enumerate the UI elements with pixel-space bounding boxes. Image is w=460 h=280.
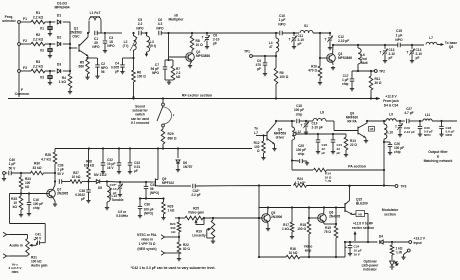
svg-text:L8: L8	[320, 111, 324, 115]
svg-text:MPF102: MPF102	[162, 181, 174, 185]
svg-text:kΩ: kΩ	[176, 75, 181, 79]
wire	[275, 52, 277, 56]
wire	[62, 181, 70, 183]
ground	[318, 78, 322, 85]
transistor Q1	[70, 27, 88, 57]
svg-text:33 kΩ: 33 kΩ	[32, 166, 41, 170]
resistor R23	[170, 218, 181, 234]
trimmer capacitor C8	[202, 32, 220, 46]
svg-text:Modulator: Modulator	[382, 208, 399, 212]
ground	[86, 192, 90, 203]
trimmer capacitor C37	[110, 182, 123, 195]
wire diode bus	[63, 22, 71, 72]
wire Q6 emitter	[324, 221, 336, 224]
diode D1	[57, 13, 61, 24]
inductor L6	[358, 45, 368, 65]
svg-text:S1: S1	[304, 24, 308, 28]
label: sound subcarrier switch note	[131, 105, 150, 125]
resistor R10	[308, 64, 322, 78]
svg-text:T: T	[202, 36, 204, 40]
transistor Q7	[47, 188, 69, 198]
ground	[177, 254, 181, 261]
svg-text:2N3905: 2N3905	[57, 192, 68, 196]
wire subcarrier rail	[55, 147, 252, 149]
transistor Q6	[318, 211, 341, 223]
resistor R35	[11, 196, 23, 210]
ground	[205, 41, 209, 49]
svg-text:*C42 1 to 3.3 pF can be used t: *C42 1 to 3.3 pF can be used to vary sub…	[131, 266, 216, 270]
svg-text:NPO: NPO	[446, 133, 453, 137]
svg-text:680: 680	[78, 65, 84, 69]
wire Q6 collector	[323, 208, 325, 215]
svg-text:From jack: From jack	[383, 99, 399, 103]
svg-text:50 V: 50 V	[57, 172, 64, 176]
transistor Q4	[256, 123, 286, 145]
svg-text:(NPO): (NPO)	[150, 191, 159, 195]
svg-text:Ω: Ω	[257, 149, 260, 153]
wire Q3 emitter	[331, 61, 335, 69]
svg-text:R3: R3	[36, 60, 40, 64]
svg-text:NTSC or PAL: NTSC or PAL	[137, 233, 157, 237]
wire	[308, 234, 310, 257]
svg-text:C36: C36	[144, 203, 150, 207]
wire driver collector	[276, 120, 307, 122]
svg-text:2-10 pF: 2-10 pF	[404, 130, 415, 134]
svg-text:pF: pF	[298, 42, 302, 46]
node audio in hot	[3, 232, 9, 236]
wire	[384, 185, 395, 187]
svg-text:T: T	[325, 38, 327, 42]
svg-text:pF: pF	[337, 151, 341, 155]
wire	[307, 184, 386, 186]
capacitor C25	[292, 144, 306, 163]
resistor R27	[70, 171, 82, 183]
svg-text:10 kΩ: 10 kΩ	[72, 175, 81, 179]
ground	[101, 165, 105, 174]
svg-text:2.2 pF: 2.2 pF	[191, 193, 200, 197]
capacitor C15	[395, 29, 403, 47]
capacitor C40	[5, 158, 16, 175]
svg-text:F3: F3	[23, 66, 27, 70]
capacitor C38	[75, 182, 91, 202]
svg-text:2.2 kΩ: 2.2 kΩ	[33, 15, 44, 19]
wire Q5 source	[158, 185, 191, 187]
resistor R12	[254, 141, 266, 153]
ferrite bead H5	[369, 127, 375, 132]
svg-text:4.7 kΩ: 4.7 kΩ	[41, 157, 51, 161]
svg-text:F2: F2	[23, 39, 27, 43]
node video in shield	[161, 251, 167, 255]
wire	[141, 32, 147, 34]
capacitor C16	[27, 194, 43, 211]
svg-text:NPO: NPO	[92, 45, 100, 49]
svg-text:(9 t): (9 t)	[150, 44, 156, 48]
wire	[353, 213, 357, 216]
wire	[40, 242, 46, 244]
resistor R9	[274, 56, 289, 84]
svg-text:R30: R30	[34, 162, 40, 166]
wire rail	[106, 32, 122, 34]
wire	[139, 189, 165, 200]
svg-text:Q8: Q8	[449, 45, 454, 49]
ground	[48, 52, 52, 58]
diode D4	[379, 235, 383, 245]
potentiometer R19	[192, 218, 214, 238]
svg-text:chip: chip	[296, 112, 303, 116]
wire	[123, 50, 135, 65]
wire Q9 base	[326, 121, 358, 131]
zener diode D6	[176, 149, 193, 170]
capacitor C6	[156, 18, 164, 35]
label: To L7	[254, 127, 258, 135]
ground	[331, 142, 335, 154]
ground	[418, 129, 422, 137]
ground	[68, 88, 72, 94]
transistor Q2	[186, 50, 211, 61]
label: video input	[137, 233, 157, 251]
svg-text:R1: R1	[36, 11, 40, 15]
wire	[88, 179, 90, 182]
svg-text:5.5 MHz: 5.5 MHz	[116, 214, 128, 218]
resistor R11	[369, 71, 382, 90]
capacitor C3	[103, 33, 115, 48]
label: Freq. selector	[2, 15, 16, 23]
svg-text:pF: pF	[113, 191, 117, 195]
capacitor C18	[294, 104, 304, 123]
svg-text:2.2 kΩ: 2.2 kΩ	[33, 37, 44, 41]
capacitor C41	[34, 233, 43, 245]
capacitor C36	[138, 199, 150, 209]
capacitor C30	[418, 121, 433, 137]
svg-text:kΩ: kΩ	[25, 185, 30, 189]
svg-text:1 kΩ: 1 kΩ	[59, 80, 67, 84]
wire	[409, 120, 423, 122]
switch J sound subcarrier	[157, 103, 175, 127]
svg-text:Input: Input	[414, 241, 423, 245]
svg-text:NPO: NPO	[278, 22, 286, 26]
wire F common bus	[18, 23, 20, 97]
svg-text:4.7 pF: 4.7 pF	[404, 111, 413, 115]
svg-text:driver: driver	[276, 135, 286, 139]
svg-text:T: T	[289, 38, 291, 42]
ground	[103, 43, 107, 53]
inductor L7	[426, 36, 437, 45]
capacitor C10	[278, 14, 286, 35]
wire	[400, 44, 424, 46]
label: 4.5 or 5.5 MHz	[116, 210, 128, 218]
ground	[120, 67, 124, 74]
ground	[85, 74, 89, 79]
wire	[396, 120, 405, 122]
resistor R24	[294, 177, 307, 187]
svg-text:pF: pF	[389, 56, 393, 60]
svg-text:16 V: 16 V	[354, 252, 361, 256]
inductor L8	[313, 111, 326, 122]
svg-text:4.7 kΩ*: 4.7 kΩ*	[295, 181, 307, 185]
diode D3	[57, 62, 61, 73]
transistor Q5 MPF102	[146, 149, 174, 187]
resistor R17	[282, 208, 294, 233]
test point TP1	[244, 50, 252, 58]
label: +12.8V from jack	[383, 95, 399, 108]
wire	[365, 214, 370, 244]
wire wiper	[35, 243, 37, 246]
wire	[391, 255, 393, 260]
resistor R18	[297, 208, 311, 235]
wire	[89, 181, 97, 183]
svg-text:+: +	[345, 246, 347, 250]
resistor R22	[177, 232, 190, 254]
label: LED power indicator	[362, 260, 380, 272]
label: Audio in	[9, 244, 23, 248]
svg-text:indicator: indicator	[363, 268, 377, 272]
potentiometer R31 audio gain	[26, 239, 37, 256]
wire	[20, 43, 31, 45]
svg-text:F1: F1	[23, 17, 27, 21]
svg-text:50 V: 50 V	[35, 237, 42, 241]
wire	[45, 21, 55, 23]
ground	[410, 54, 414, 63]
wire	[11, 172, 31, 174]
svg-text:2N4305: 2N4305	[329, 215, 340, 219]
ground	[266, 221, 270, 230]
svg-text:22 Ω: 22 Ω	[350, 143, 357, 147]
ground	[48, 30, 52, 36]
resistor R14	[314, 168, 332, 183]
svg-text:82 Ω: 82 Ω	[183, 247, 190, 251]
svg-text:16 V: 16 V	[107, 166, 114, 170]
wire	[370, 90, 372, 100]
ground	[211, 238, 215, 243]
svg-text:R29: R29	[168, 132, 174, 136]
ground	[188, 61, 192, 67]
diode D2	[57, 35, 61, 46]
ground	[128, 165, 132, 174]
svg-text:if J removed: if J removed	[131, 121, 150, 125]
svg-text:100 Ω: 100 Ω	[297, 227, 306, 231]
wire	[9, 235, 27, 239]
svg-text:chip: chip	[342, 82, 349, 86]
wire	[344, 241, 346, 257]
wire Q15 collector	[348, 185, 350, 201]
ground	[53, 197, 58, 206]
ground	[350, 81, 354, 91]
wire	[165, 59, 173, 61]
crystal X3	[40, 75, 53, 79]
wire	[132, 82, 134, 98]
transistor Q9	[346, 112, 367, 138]
capacitor C5	[136, 18, 144, 35]
capacitor C39	[57, 164, 64, 184]
svg-text:Audio in: Audio in	[9, 244, 23, 248]
inductor L12	[292, 127, 301, 140]
svg-text:RF PA: RF PA	[347, 120, 357, 124]
transistor Q15	[345, 198, 368, 215]
svg-text:pF: pF	[322, 151, 326, 155]
wire audio feed	[10, 194, 46, 243]
ground	[439, 129, 443, 137]
wire	[20, 189, 22, 196]
wire	[97, 32, 106, 34]
wire	[357, 64, 359, 72]
svg-text:2N3906: 2N3906	[271, 215, 282, 219]
wire	[299, 120, 313, 122]
capacitor C21	[331, 134, 343, 155]
diode D5 MV2112	[94, 173, 107, 190]
inductor L3	[145, 33, 156, 57]
svg-text:RF exciter section: RF exciter section	[182, 94, 212, 98]
svg-text:MPN3404: MPN3404	[54, 6, 69, 10]
wire	[107, 181, 121, 183]
svg-text:X1: X1	[40, 26, 44, 30]
resistor R21	[390, 242, 403, 255]
label: audio input level	[9, 263, 23, 274]
wire	[100, 180, 108, 182]
svg-text:75 Ω: 75 Ω	[324, 230, 331, 234]
wire modulator left	[258, 186, 260, 258]
label: output filter	[424, 150, 453, 163]
node power jack sleeve	[401, 249, 410, 259]
svg-text:pF: pF	[257, 67, 261, 71]
svg-text:Tunable: Tunable	[112, 198, 124, 202]
node +13.2V input	[409, 237, 426, 245]
svg-text:kΩ: kΩ	[13, 205, 18, 209]
svg-text:Output filter: Output filter	[428, 150, 448, 154]
wire to modulator	[196, 184, 291, 186]
capacitor C28	[439, 121, 454, 137]
ground	[117, 165, 121, 174]
svg-text:D3: D3	[57, 62, 61, 66]
wire	[49, 44, 51, 48]
svg-text:chip: chip	[33, 206, 40, 210]
wire	[432, 120, 457, 122]
svg-text:BLE209: BLE209	[356, 202, 368, 206]
capacitor C26	[384, 142, 404, 154]
ground	[165, 69, 173, 84]
svg-text:L12: L12	[296, 130, 302, 134]
transistor Q3	[327, 52, 353, 62]
capacitor C4	[111, 62, 125, 74]
svg-text:100 Ω: 100 Ω	[280, 75, 289, 79]
wire	[263, 136, 265, 142]
resistor R16	[286, 247, 300, 259]
capacitor C1	[92, 31, 100, 49]
wire	[20, 21, 31, 23]
svg-text:2-10 pF: 2-10 pF	[312, 126, 323, 130]
wire	[44, 172, 56, 174]
ground	[344, 150, 348, 157]
svg-text:NPO: NPO	[136, 26, 144, 30]
inductor L11	[423, 113, 432, 121]
svg-text:T: T	[301, 124, 303, 128]
ground	[19, 210, 23, 217]
svg-text:TP1: TP1	[244, 50, 250, 54]
ground	[161, 214, 165, 220]
ground	[95, 67, 99, 78]
resistor R6	[132, 58, 147, 82]
svg-text:PA section: PA section	[348, 165, 366, 169]
wire	[45, 43, 55, 45]
wire Q7 collector	[53, 182, 55, 191]
wire	[313, 32, 330, 34]
wire	[275, 84, 277, 100]
wire Q1 emitter	[86, 56, 88, 59]
capacitor C9	[256, 56, 268, 71]
svg-text:exciter section: exciter section	[352, 226, 374, 230]
node F3	[18, 66, 27, 73]
wire	[300, 256, 345, 258]
svg-text:30 Ω: 30 Ω	[375, 81, 382, 85]
resistor R1	[31, 11, 45, 24]
ground	[302, 161, 309, 165]
ground	[364, 138, 368, 143]
ferrite bead H5b	[356, 211, 365, 217]
svg-text:10 Ω: 10 Ω	[196, 43, 204, 47]
ground	[290, 232, 294, 239]
ground	[118, 189, 122, 197]
inductor L1	[88, 11, 101, 33]
label: D1-D3 MPN3404	[54, 2, 69, 10]
ground	[292, 41, 296, 49]
inductor L2	[123, 32, 137, 51]
wire Q2 base	[167, 32, 185, 60]
transistor Q5 modulator	[262, 211, 283, 222]
svg-text:47: 47	[269, 45, 273, 49]
wire	[191, 50, 193, 53]
resistor R13	[344, 134, 357, 150]
wire	[319, 57, 327, 59]
resistor R7	[171, 60, 181, 80]
svg-text:T: T	[380, 51, 382, 55]
svg-text:Multiplier: Multiplier	[168, 18, 184, 22]
ground	[328, 41, 332, 50]
svg-text:NPO: NPO	[156, 26, 164, 30]
wire +12.8V rail	[8, 97, 380, 100]
inductor L10	[384, 121, 393, 139]
label: C36 value	[143, 208, 153, 216]
label: RF exciter section	[182, 94, 212, 98]
wire	[383, 139, 385, 171]
svg-text:10 kΩ: 10 kΩ	[289, 251, 298, 255]
svg-text:NPO: NPO	[395, 38, 403, 42]
wire	[45, 70, 55, 72]
capacitor C27	[404, 107, 413, 123]
svg-text:1 kΩ: 1 kΩ	[168, 209, 175, 213]
svg-text:470 Ω: 470 Ω	[308, 69, 317, 73]
svg-text:MPS3866: MPS3866	[338, 56, 352, 60]
svg-text:D1: D1	[57, 13, 61, 17]
wire Q3 collector	[332, 44, 334, 55]
svg-text:L7: L7	[429, 36, 433, 40]
svg-text:1 μF: 1 μF	[396, 33, 403, 37]
svg-text:MPS3866: MPS3866	[196, 54, 210, 58]
svg-text:D4 & C34: D4 & C34	[384, 103, 399, 107]
label: video amp	[304, 245, 313, 253]
ground	[176, 163, 180, 172]
ground	[263, 65, 267, 76]
svg-text:H5: H5	[358, 212, 362, 216]
wire	[167, 236, 180, 238]
svg-text:50 V: 50 V	[9, 166, 17, 170]
ground	[348, 248, 352, 256]
crystal X1	[40, 26, 53, 30]
test point TP2	[374, 69, 385, 73]
ground	[48, 79, 52, 85]
svg-text:R2: R2	[36, 33, 40, 37]
svg-text:1N757: 1N757	[183, 165, 193, 169]
crystal X2	[40, 48, 53, 52]
resistor R2	[31, 33, 45, 46]
